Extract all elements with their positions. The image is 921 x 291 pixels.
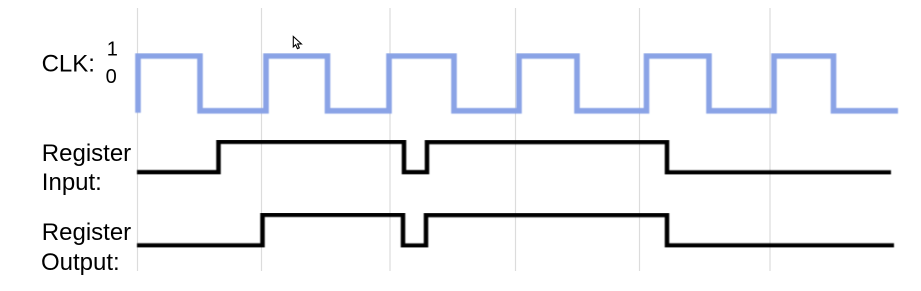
gridline 5: [639, 8, 641, 271]
svg-text:1: 1: [107, 38, 118, 60]
gridline 3: [389, 8, 391, 271]
svg-text:Register: Register: [42, 140, 131, 167]
Register Output waveform: [137, 215, 894, 246]
svg-text:Input:: Input:: [42, 169, 102, 196]
CLK waveform: [138, 56, 898, 113]
Register Input waveform: [137, 142, 891, 173]
svg-text:CLK:: CLK:: [42, 51, 95, 78]
svg-text:0: 0: [106, 66, 117, 88]
svg-text:Register: Register: [42, 219, 131, 246]
gridline 1: [137, 8, 139, 271]
mouse cursor: [293, 37, 301, 49]
gridline 4: [515, 8, 517, 271]
gridline 2: [261, 8, 263, 271]
gridline 6: [769, 8, 771, 271]
svg-text:Output:: Output:: [41, 249, 120, 276]
